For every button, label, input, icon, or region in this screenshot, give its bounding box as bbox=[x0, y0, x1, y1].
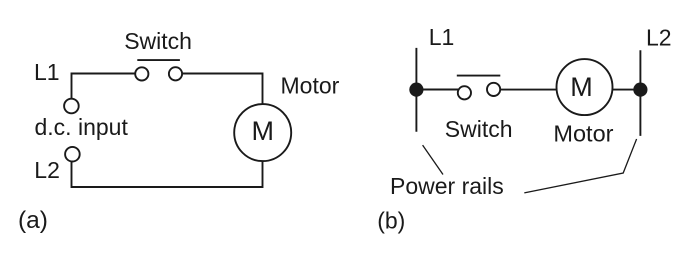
svg-text:M: M bbox=[251, 116, 274, 146]
svg-text:L1: L1 bbox=[34, 59, 60, 85]
svg-text:L2: L2 bbox=[34, 157, 60, 183]
svg-text:Switch: Switch bbox=[445, 116, 513, 142]
svg-text:(a): (a) bbox=[18, 207, 48, 234]
svg-text:L1: L1 bbox=[429, 24, 455, 50]
svg-text:(b): (b) bbox=[377, 207, 405, 233]
svg-text:Switch: Switch bbox=[124, 28, 192, 54]
svg-text:Motor: Motor bbox=[281, 73, 340, 99]
svg-text:Motor: Motor bbox=[553, 121, 613, 147]
svg-text:M: M bbox=[570, 72, 593, 102]
svg-text:d.c. input: d.c. input bbox=[35, 114, 129, 140]
svg-text:Power rails: Power rails bbox=[390, 173, 504, 199]
svg-text:L2: L2 bbox=[646, 24, 672, 50]
